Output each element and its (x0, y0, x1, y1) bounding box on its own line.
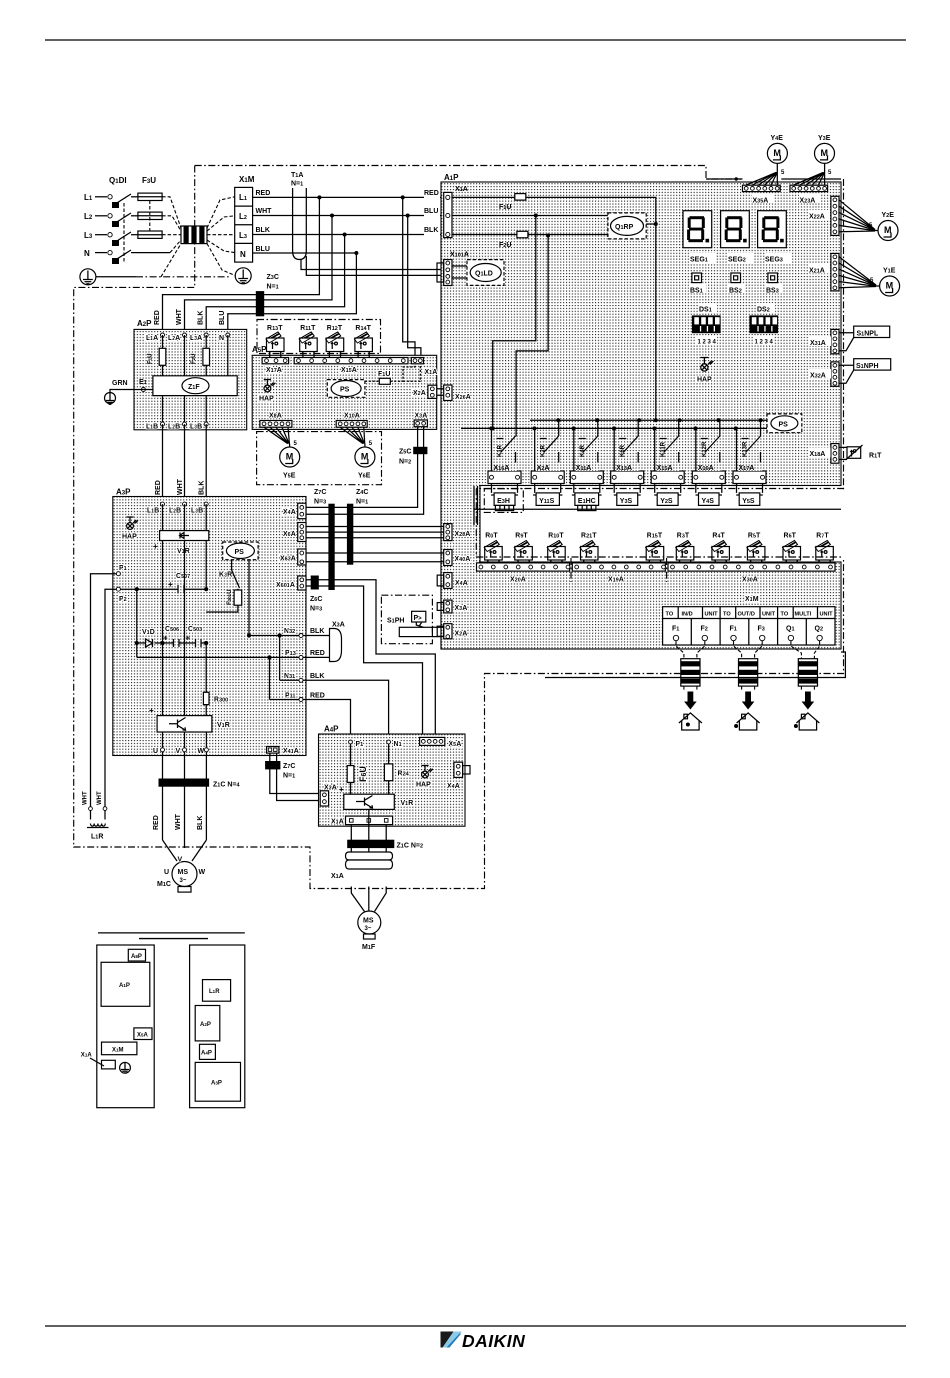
terminal N1 (A4P) (387, 740, 402, 748)
wire (474, 486, 478, 525)
thermistor R1T (846, 445, 863, 460)
svg-text:Z4C: Z4C (356, 489, 368, 496)
svg-text:HAP: HAP (259, 396, 274, 403)
connector X31A (831, 329, 839, 353)
svg-text:MS: MS (363, 918, 374, 925)
svg-text:Z1F: Z1F (188, 384, 200, 391)
main PCB A1P (441, 182, 841, 649)
label DS1 1234 (696, 336, 717, 346)
wires X2A to X26A (437, 389, 444, 395)
svg-text:Z6C: Z6C (310, 596, 322, 603)
house icon (796, 713, 819, 730)
svg-text:X17A: X17A (266, 367, 282, 374)
thermistor R9T (514, 533, 532, 564)
E3H heater (491, 493, 518, 511)
ferrite Z1C N=2 (A4P) (347, 840, 423, 850)
wire N to ferrite (131, 252, 170, 254)
connector X2A (A5P) (428, 385, 437, 398)
capacitor C506 (163, 626, 188, 647)
svg-text:RED: RED (256, 190, 271, 197)
node V1D left / P2 leg (137, 589, 270, 657)
svg-text:DS1: DS1 (699, 307, 712, 314)
svg-text:X63A: X63A (280, 556, 296, 563)
svg-text:X15A: X15A (657, 465, 673, 472)
DIP switch DS2 (749, 315, 778, 333)
wire colour labels at A1P (424, 186, 440, 236)
relay K13R (737, 420, 761, 471)
inverter module V1R (A4P) (339, 785, 413, 809)
svg-text:P>: P> (414, 615, 423, 622)
svg-text:X23A: X23A (800, 198, 816, 205)
svg-text:N32: N32 (284, 628, 295, 635)
7seg display SEG3 (758, 211, 787, 248)
svg-text:+: + (149, 706, 154, 715)
fan motor M1F (358, 911, 381, 951)
svg-text:R14T: R14T (355, 325, 371, 332)
svg-text:X601A: X601A (276, 582, 295, 589)
svg-text:L2B: L2B (169, 508, 181, 515)
node BLK tap (343, 233, 347, 237)
wires to solenoid Y11S (535, 484, 561, 493)
relay power supply Q1RP (608, 213, 646, 239)
connector X40A (444, 550, 452, 566)
wires to crankcase heater E1HC (574, 484, 600, 493)
svg-text:F1U: F1U (148, 353, 154, 364)
svg-text:RED: RED (153, 815, 160, 830)
svg-text:E1: E1 (139, 379, 147, 386)
svg-text:RED: RED (155, 480, 162, 495)
connector X11A (relay output) (570, 471, 603, 484)
dashed gang line of F3U (149, 201, 151, 232)
wires X18A to R1T (839, 447, 847, 459)
svg-text:BLK: BLK (199, 481, 206, 495)
svg-text:X8A: X8A (269, 413, 282, 420)
wires to E3H heater (492, 484, 518, 493)
earth leakage detector Q1LD (452, 260, 504, 286)
legend A4P (200, 1044, 216, 1059)
svg-text:+: + (339, 785, 344, 794)
svg-text:X16A: X16A (494, 465, 510, 472)
connector X4A (A4P) (454, 762, 470, 777)
svg-text:X18A: X18A (810, 451, 826, 458)
wire RED tap down to A5P X1A (403, 197, 415, 357)
fan-out wires X22A to Y2E (839, 200, 875, 232)
node BLU tap (354, 251, 358, 255)
earth terminal (unit side) (235, 268, 251, 284)
svg-text:X28A: X28A (455, 531, 471, 538)
svg-text:L3B: L3B (190, 424, 202, 431)
ferrite Z7C (vertical) (328, 504, 334, 590)
svg-text:K11R: K11R (661, 441, 667, 457)
wire colour labels above A3P (155, 478, 206, 495)
arrow to indoor wiring (802, 692, 815, 710)
svg-text:L1B: L1B (147, 508, 159, 515)
svg-text:E3H: E3H (497, 498, 510, 505)
push button BS1 (692, 273, 702, 283)
fuse F2U (A1P) (517, 231, 528, 238)
label SEG1 (690, 253, 716, 264)
wires X3A (A5P) down to X4A (A3P) (306, 427, 424, 515)
svg-text:X32A: X32A (810, 373, 826, 380)
wire Q1RP output (646, 223, 656, 225)
ferrite Z1C N=4 (159, 779, 241, 789)
svg-text:X41A: X41A (283, 748, 299, 755)
svg-text:TO: TO (781, 612, 789, 618)
node RED tap (317, 195, 321, 199)
connector X6A (A3P) (298, 523, 306, 542)
wires X63A to X40A (306, 553, 444, 562)
svg-text:X2A: X2A (413, 390, 426, 397)
svg-text:X19A: X19A (608, 577, 624, 584)
svg-text:N=3: N=3 (314, 499, 326, 506)
svg-text:BLU: BLU (424, 208, 438, 215)
svg-text:Z5C: Z5C (399, 449, 411, 456)
svg-text:BS2: BS2 (729, 288, 742, 295)
svg-text:Y1E: Y1E (883, 268, 896, 275)
connector X17A (A5P) (262, 358, 289, 364)
wires S1PH to X2A (A1P) (432, 627, 443, 636)
house icon (679, 713, 702, 730)
svg-text:N=1: N=1 (267, 284, 279, 291)
LED HAP (A3P) (121, 516, 139, 541)
svg-text:Y2E: Y2E (882, 212, 895, 219)
wire BLK tap to relay 1 (516, 235, 548, 437)
svg-text:Q2: Q2 (815, 626, 824, 633)
fan motor Y2E (878, 221, 898, 241)
DAIKIN logo (441, 1331, 526, 1351)
connector plug X3A (DC link) (330, 629, 342, 662)
terminal N32 (284, 628, 303, 638)
wire N32 rail (249, 635, 301, 637)
legend A8P (128, 949, 145, 961)
connector X5A (A4P) (420, 737, 445, 745)
node C507 right (204, 587, 208, 591)
wire L2 (95, 215, 107, 217)
svg-text:S1PH: S1PH (387, 618, 404, 625)
wires X31A to S1NPL (839, 333, 854, 351)
connector X18A (831, 444, 839, 464)
A3P input pins L1B L2B L3B (147, 502, 208, 514)
connector X1A (A5P) (411, 358, 423, 364)
svg-text:Z7C: Z7C (283, 763, 295, 770)
svg-text:X3A: X3A (415, 413, 428, 420)
svg-text:WHT: WHT (97, 791, 103, 805)
svg-text:F1U: F1U (378, 371, 390, 378)
label DS2 1234 (753, 336, 774, 346)
svg-text:N: N (240, 250, 246, 259)
thermistor R14T (354, 325, 372, 358)
connector strip X20A (477, 563, 570, 571)
node lower bus feed (491, 426, 495, 430)
node WHT tap (330, 214, 334, 218)
wire T1A to X101A pin3 (306, 256, 443, 275)
svg-text:X22A: X22A (809, 214, 825, 221)
wires X601A to X5A (A4P) (306, 580, 435, 738)
wire P13 to plug (303, 656, 330, 658)
node RED tap 2 (401, 195, 405, 199)
svg-text:N=1: N=1 (291, 181, 303, 188)
svg-text:X40A: X40A (455, 556, 471, 563)
fan-out wires X21A to Y1E (839, 257, 876, 288)
svg-text:L1B: L1B (146, 424, 158, 431)
fan motor Y5E (280, 447, 300, 467)
legend A2P (195, 1006, 220, 1041)
wires to solenoid Y4S (696, 484, 722, 493)
terminal P1 (A4P) (349, 740, 364, 748)
svg-text:HAP: HAP (416, 782, 431, 789)
svg-text:Y5E: Y5E (283, 473, 296, 480)
svg-text:R12T: R12T (327, 325, 343, 332)
svg-text:1 2 3 4: 1 2 3 4 (698, 340, 717, 346)
thermistor R13T (266, 325, 284, 358)
earth leakage detector connector X101A (437, 260, 452, 286)
solenoid Y4S (696, 493, 723, 506)
thermistor R6T (783, 533, 801, 564)
svg-text:HAP: HAP (122, 534, 137, 541)
LED HAP (A1P) (694, 357, 714, 382)
svg-text:Y2S: Y2S (660, 498, 673, 505)
svg-text:X20A: X20A (510, 577, 526, 584)
relay upper bus (530, 419, 767, 421)
svg-text:WHT: WHT (176, 308, 183, 325)
fan motor Y3E (815, 143, 835, 163)
svg-text:N: N (219, 335, 224, 342)
wire N32 to plug (303, 635, 330, 637)
svg-text:L2B: L2B (168, 424, 180, 431)
node P2 (135, 587, 139, 591)
svg-text:MS: MS (178, 869, 189, 876)
wire E1 to earth (110, 390, 153, 394)
svg-text:GRN: GRN (112, 380, 128, 387)
connector X8A (A5P) (260, 421, 292, 428)
wires to solenoid Y3S (614, 484, 640, 493)
svg-text:+: + (163, 634, 168, 643)
wire BLK inside A1P through F2U (452, 234, 608, 236)
wire N (95, 252, 107, 254)
svg-text:PS: PS (779, 422, 789, 429)
connector X63A (A3P) (298, 549, 306, 565)
svg-text:K4R: K4R (580, 444, 586, 457)
line filter Z1F (153, 376, 237, 396)
A2P input pins L1A L2A L3A N (146, 333, 230, 342)
connector X35A (743, 185, 781, 191)
legend earth symbol (120, 1062, 131, 1073)
svg-text:UNIT: UNIT (705, 612, 719, 618)
svg-text:F2U: F2U (499, 242, 511, 249)
relay K11R (655, 420, 679, 471)
svg-text:R15T: R15T (647, 533, 663, 540)
terminal P2 (116, 587, 126, 603)
svg-text:X17A: X17A (739, 465, 755, 472)
wires X1A through Z1C (351, 810, 386, 870)
terminal N31 (284, 673, 303, 682)
svg-text:SEG3: SEG3 (765, 257, 783, 264)
push button BS3 (768, 273, 778, 283)
LED HAP (A5P) (258, 379, 276, 403)
svg-text:X3A: X3A (332, 622, 345, 629)
svg-text:BLK: BLK (310, 673, 324, 680)
connector X26A (444, 385, 452, 401)
bus junction nodes (489, 418, 762, 430)
svg-text:P2: P2 (119, 596, 127, 603)
wire P13 rail (270, 656, 302, 658)
svg-text:Q1LD: Q1LD (475, 271, 493, 278)
current transformer T1A loop (293, 188, 307, 260)
svg-text:1 2 3 4: 1 2 3 4 (755, 340, 774, 346)
connector X2A (relay output) (531, 471, 564, 484)
connector X23A (790, 185, 828, 191)
label BS3 (765, 285, 782, 295)
thermistor R10T (547, 533, 565, 564)
node Q1RP output (654, 222, 658, 226)
svg-text:R1T: R1T (869, 453, 882, 460)
A2P output pins L1B L2B L3B (146, 396, 208, 431)
svg-text:K3R: K3R (219, 572, 232, 579)
svg-text:X1A: X1A (331, 873, 344, 880)
svg-text:Y5S: Y5S (742, 498, 755, 505)
ferrite core (field wiring) (739, 659, 758, 686)
wire P11 (270, 657, 302, 699)
noise filter PCB A2P (134, 329, 247, 429)
fuse F3U pole 3 (138, 231, 162, 238)
svg-text:3~: 3~ (365, 926, 372, 932)
wire N down (227, 335, 229, 376)
casing line thermistor tray (476, 489, 843, 558)
wire P2 to reactor L1R (105, 589, 116, 808)
E3H enclosure (dash-dot) (484, 489, 523, 513)
thermistor R15T (646, 533, 664, 564)
svg-text:K13R: K13R (743, 441, 749, 457)
fuse F1U (A5P) (365, 364, 420, 385)
switch contact Q1DI pole 3 (108, 233, 112, 237)
svg-text:X1A: X1A (425, 369, 438, 376)
fan motor Y1E (880, 276, 900, 296)
ferrite Z7C N=1 (265, 761, 295, 780)
svg-text:WHT: WHT (175, 813, 182, 830)
svg-text:WHT: WHT (177, 478, 184, 495)
svg-text:Z1C N=2: Z1C N=2 (397, 843, 424, 850)
svg-text:N31: N31 (284, 673, 295, 680)
fan motor Y4E (767, 143, 787, 163)
funnel to M1C (163, 840, 207, 861)
connector strip X19A (572, 563, 665, 571)
svg-text:Y3E: Y3E (818, 135, 831, 142)
wire RED X1M to A1P X1A (253, 196, 444, 198)
svg-text:Q1DI: Q1DI (109, 176, 127, 185)
svg-text:X15A: X15A (341, 367, 357, 374)
field wiring dashes into ferrite (161, 197, 181, 277)
svg-text:BLK: BLK (424, 227, 438, 234)
svg-text:V1R: V1R (177, 548, 190, 555)
fuse F6U (A4P) (347, 744, 368, 794)
svg-text:X21A: X21A (809, 268, 825, 275)
field wiring to ferrite (791, 641, 820, 659)
wires to solenoid Y2S (655, 484, 681, 493)
svg-text:R9T: R9T (515, 533, 528, 540)
svg-text:BLK: BLK (310, 628, 324, 635)
legend A3P (195, 1062, 240, 1101)
wire RED tap down to A2P L1A (163, 197, 320, 335)
legend X1A pointer (81, 1053, 116, 1069)
svg-text:K1R: K1R (498, 444, 504, 457)
wires to solenoid Y5S (737, 484, 763, 493)
funnel to M1F (351, 887, 386, 912)
fan-out wires X23A to Y3E (794, 164, 825, 185)
svg-text:L2A: L2A (168, 335, 180, 342)
connector X4A (A1P) (437, 573, 452, 589)
svg-text:F1: F1 (730, 626, 737, 633)
connector X17A (relay output) (733, 471, 766, 484)
svg-text:V1D: V1D (142, 629, 155, 636)
connector strip X30A (668, 563, 835, 571)
svg-text:+: + (153, 542, 158, 551)
svg-text:TO: TO (666, 612, 674, 618)
ferrite Z4C (vertical) (347, 504, 353, 565)
svg-text:BLK: BLK (198, 311, 205, 325)
svg-text:R13T: R13T (267, 325, 283, 332)
label BS2 (728, 285, 745, 295)
ferrite Z5C (413, 447, 427, 454)
svg-text:X11A: X11A (576, 465, 592, 472)
solenoid Y3S (614, 493, 641, 506)
svg-text:R300: R300 (214, 697, 228, 704)
relay K1R (492, 428, 516, 471)
fan-out X8A to Y5E (264, 427, 290, 447)
connector X3A (A1P) (437, 600, 452, 613)
svg-text:L3A: L3A (190, 335, 202, 342)
solenoid Y11S (533, 493, 562, 506)
connector X41A (267, 747, 279, 754)
svg-text:X16A: X16A (698, 465, 714, 472)
svg-text:R4T: R4T (712, 533, 725, 540)
wire BLK tap down to A2P L3A (206, 235, 344, 336)
node C503 right (204, 641, 208, 645)
connector X10A (A5P) (336, 421, 367, 428)
node WHT tap 2 (406, 214, 410, 218)
svg-text:K12R: K12R (702, 441, 708, 457)
label SEG3 (765, 253, 791, 264)
field wiring dashes ferrite to X1M (207, 197, 236, 276)
legend component box right (190, 945, 245, 1108)
node PS leg to N32 rail (247, 633, 251, 637)
svg-text:N=3: N=3 (310, 606, 322, 613)
legend L1R (203, 980, 231, 1002)
solenoid Y5S (736, 493, 763, 506)
svg-text:X101A: X101A (450, 252, 469, 259)
svg-text:X1M: X1M (745, 596, 759, 603)
svg-text:Z1C N=4: Z1C N=4 (213, 782, 241, 789)
svg-text:W: W (198, 748, 205, 755)
svg-text:N=1: N=1 (283, 773, 295, 780)
legend X1M (102, 1042, 137, 1055)
thermistor R3T (676, 533, 694, 564)
earth wire to unit (96, 276, 136, 278)
terminal P13 (285, 650, 303, 659)
fuse F2U (A2P) (191, 335, 209, 376)
thermistor R4T (711, 533, 729, 564)
svg-text:U: U (153, 748, 158, 755)
svg-text:V: V (176, 748, 181, 755)
field wiring to ferrite (676, 641, 705, 659)
svg-text:M1F: M1F (362, 944, 376, 951)
switch contact Q1DI pole 2 (108, 214, 112, 218)
wire N31 (280, 636, 301, 681)
svg-text:L1R: L1R (91, 834, 103, 841)
reactor L1R (83, 791, 109, 840)
svg-text:F2: F2 (701, 626, 708, 633)
connector X601A (A3P) (298, 576, 306, 590)
wire BLU X1M to node (253, 252, 357, 254)
